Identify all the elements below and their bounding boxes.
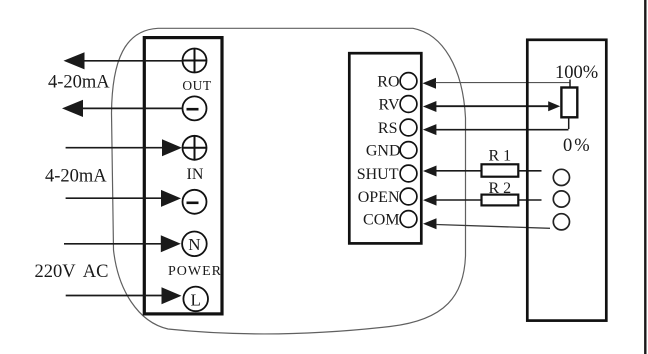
terminal block TB1 (OUT/IN/POWER) (144, 38, 222, 314)
positioner unit box (527, 40, 606, 321)
terminal RV (400, 96, 417, 113)
potentiometer RP (561, 88, 577, 118)
wire SHUT (left of R1) (436, 170, 482, 172)
terminal RO (400, 73, 417, 90)
wire OPEN (left of R2) (436, 199, 482, 201)
wire potentiometer bottom lead (568, 117, 570, 129)
svg-text:220V: 220V (35, 262, 77, 282)
wire potentiometer top lead (569, 80, 571, 89)
wire RO to potentiometer top (436, 82, 571, 84)
actuator body outline (rounded rectangle) (112, 28, 466, 334)
svg-text:IN: IN (187, 166, 204, 183)
arrowhead OUT+ (left) (64, 52, 85, 69)
arrowhead RS (left, at TB2) (423, 124, 437, 135)
wire SHUT (right of R1) (518, 170, 541, 172)
svg-text:100%: 100% (555, 63, 598, 83)
wire OPEN (right of R2) (518, 199, 541, 201)
arrowhead COM (left, at TB2) (423, 218, 437, 229)
terminal COM (400, 211, 417, 228)
feedback contact circle 3 (553, 214, 569, 230)
arrowhead RO (left, at TB2) (423, 78, 437, 89)
svg-text:POWER: POWER (168, 264, 222, 279)
arrowhead IN+ (right) (162, 139, 182, 156)
svg-text:0%: 0% (563, 136, 590, 156)
resistor R1 (482, 164, 519, 176)
arrowhead OPEN (left, at TB2) (423, 195, 437, 206)
svg-text:OUT: OUT (182, 78, 211, 93)
terminal GND (400, 142, 417, 159)
terminal OUT+ (183, 49, 207, 73)
terminal N (182, 232, 207, 257)
svg-text:N: N (188, 235, 200, 254)
wire N (64, 243, 163, 245)
feedback contact circle 2 (553, 191, 569, 207)
wire RS to potentiometer bottom (436, 129, 569, 131)
svg-text:OPEN: OPEN (358, 189, 400, 206)
svg-text:RV: RV (379, 96, 400, 113)
wire OUT+ (84, 60, 183, 62)
arrowhead IN- (right) (161, 190, 181, 207)
control terminal block TB2 (RO..COM) (349, 53, 421, 243)
arrowhead SHUT (left, at TB2) (423, 166, 437, 177)
terminal IN- (183, 190, 207, 214)
arrowhead RV (right, at potentiometer wiper) (548, 101, 560, 111)
arrowhead OUT- (left) (62, 100, 83, 117)
svg-text:RS: RS (378, 120, 398, 137)
wire RV (436, 105, 551, 107)
svg-text:COM: COM (363, 211, 399, 228)
svg-text:GND: GND (366, 142, 401, 159)
feedback contact circle 1 (553, 169, 569, 185)
wire L (66, 295, 163, 297)
terminal IN+ (183, 136, 207, 160)
arrowhead N (right) (161, 235, 181, 252)
arrowhead L (right) (162, 287, 182, 304)
svg-text:4-20mA: 4-20mA (48, 73, 110, 93)
page border line (right edge) (644, 0, 646, 354)
terminal OPEN (400, 188, 417, 205)
wire IN+ (66, 147, 164, 149)
svg-text:4-20mA: 4-20mA (45, 167, 107, 187)
resistor R2 (482, 195, 519, 206)
terminal OUT- (183, 96, 207, 120)
wire COM (436, 225, 550, 229)
terminal SHUT (400, 165, 417, 182)
terminal RS (400, 119, 417, 136)
svg-text:AC: AC (83, 262, 109, 282)
wire OUT- (82, 107, 183, 109)
svg-text:R 1: R 1 (489, 148, 512, 165)
svg-text:RO: RO (377, 73, 399, 90)
svg-text:SHUT: SHUT (357, 166, 399, 183)
terminal L (183, 287, 208, 312)
svg-text:L: L (191, 291, 201, 310)
arrowhead RV (left, at TB2) (423, 101, 437, 112)
wire IN- (66, 197, 163, 199)
